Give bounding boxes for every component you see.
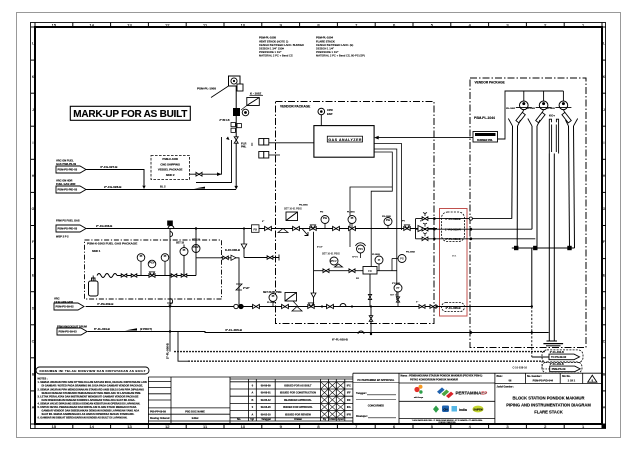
adhi karya logo bbox=[414, 385, 424, 399]
leader from diag box2 bbox=[293, 301, 298, 307]
check valve row1 bbox=[418, 226, 424, 232]
flare stack base flange bbox=[543, 341, 563, 346]
svg-text:1T-1: 1T-1 bbox=[452, 256, 457, 258]
svg-text:2"x3": 2"x3" bbox=[243, 287, 250, 290]
hatch pattern cells bbox=[321, 382, 345, 418]
svg-text:CPR: CPR bbox=[327, 108, 333, 112]
drip leg arrow bbox=[302, 229, 308, 236]
wire CNG box outlet bbox=[190, 137, 222, 174]
svg-text:IFF: IFF bbox=[347, 399, 351, 402]
wire riser down from cross header to LP line bbox=[531, 248, 533, 307]
vendor package boundary flare stack (dash-dot) bbox=[470, 78, 586, 348]
svg-text:PG-1001: PG-1001 bbox=[299, 205, 309, 207]
PC Pertamina EP approval block bbox=[356, 379, 395, 418]
svg-text:DI GAMBAR / NOTED PADA DRAWING: DI GAMBAR / NOTED PADA DRAWING INI JUGA … bbox=[42, 385, 144, 388]
svg-text:L: L bbox=[603, 42, 605, 46]
svg-text:F: F bbox=[603, 240, 605, 244]
svg-text:MATERIAL 2 PC + Bend CS: MATERIAL 2 PC + Bend CS, 80-PS (SP) bbox=[316, 54, 365, 58]
MARK-UP FOR AS BUILT stamp box bbox=[70, 106, 190, 120]
signal boxes pair lower bbox=[259, 152, 269, 159]
svg-text:PSM-PS-PID-044: PSM-PS-PID-044 bbox=[533, 379, 554, 383]
svg-text:CH: CH bbox=[443, 407, 447, 411]
interlock diag box above row1 bbox=[286, 212, 298, 221]
svg-text:PRESSURE 1 1/2": PRESSURE 1 1/2" bbox=[259, 50, 282, 54]
valve FO box on pilot line bbox=[252, 225, 260, 233]
wire drop from FLR junction bbox=[251, 143, 253, 146]
instrument bubble beside block bbox=[242, 109, 249, 116]
svg-text:09-03-20: 09-03-20 bbox=[261, 406, 272, 409]
gate valve bottle line b bbox=[131, 274, 137, 277]
svg-text:FLARE STACK: FLARE STACK bbox=[316, 39, 335, 43]
svg-text:PSM-PS-PID-03: PSM-PS-PID-03 bbox=[58, 227, 78, 231]
svg-text:I: I bbox=[604, 141, 605, 145]
regulator bubble mid bbox=[330, 257, 343, 267]
svg-text:WSP 2 P 2: WSP 2 P 2 bbox=[56, 235, 69, 239]
instrument bubble PG row1 bbox=[321, 216, 329, 229]
ruler ticks top edge bbox=[35, 23, 602, 28]
svg-text:SET 15: SET 15 bbox=[176, 242, 185, 245]
wire lower signal line bbox=[269, 154, 280, 156]
svg-text:KO+: KO+ bbox=[549, 114, 555, 118]
gate valve row2 d bbox=[419, 305, 425, 309]
svg-text:FO: FO bbox=[254, 229, 257, 232]
wire skid outlet to flare header drop bbox=[196, 258, 239, 307]
main flare stack pipes bbox=[549, 154, 554, 342]
svg-text:A: A bbox=[251, 413, 253, 416]
svg-text:FRM PS FUEL GAS: FRM PS FUEL GAS bbox=[56, 219, 80, 223]
valve with actuator on pilot line 2 bbox=[422, 223, 428, 231]
svg-text:12: 12 bbox=[165, 22, 170, 27]
svg-text:Tanggal :: Tanggal : bbox=[356, 392, 367, 395]
jump loops on crossing vertical bbox=[170, 232, 173, 304]
valve on riser bbox=[234, 137, 238, 143]
svg-text:PSM-X-1003 FUEL GAS PACKAGE: PSM-X-1003 FUEL GAS PACKAGE bbox=[87, 242, 137, 246]
junction dots row2 bbox=[321, 305, 353, 307]
svg-text:2"-FG-028-B: 2"-FG-028-B bbox=[104, 185, 122, 189]
wire main flare line from KO drum bbox=[88, 331, 178, 333]
off-page connector to burn pit 2 bbox=[550, 366, 581, 372]
pilot burner 2 bbox=[526, 91, 552, 123]
wire diagonal leader to the left bbox=[211, 86, 229, 98]
molecular seal inner tube bbox=[552, 125, 557, 153]
check valve on drop bbox=[241, 244, 247, 249]
svg-text:PI-1003: PI-1003 bbox=[372, 254, 380, 256]
pressure regulator row1 bbox=[310, 227, 316, 231]
svg-text:SET 20-05 PSIG: SET 20-05 PSIG bbox=[263, 291, 282, 294]
notes text block bbox=[38, 378, 147, 420]
svg-text:VESSEL PACKAGE: VESSEL PACKAGE bbox=[158, 168, 183, 172]
gas analyzer label plate bbox=[327, 136, 362, 142]
svg-text:SET 10-01 PSIG: SET 10-01 PSIG bbox=[284, 208, 302, 211]
riser 3 inlet horn bbox=[566, 119, 578, 127]
svg-text:09-02-10: 09-02-10 bbox=[261, 413, 272, 416]
wire second riser x231.5 to CNG outlet bbox=[196, 140, 232, 183]
svg-text:PSM-PS-09-03: PSM-PS-09-03 bbox=[59, 330, 78, 334]
svg-text:I: I bbox=[33, 141, 34, 145]
wire dashed continuation to flare header and tag 1 bbox=[531, 307, 533, 358]
svg-text:SAIPEM: SAIPEM bbox=[473, 408, 482, 411]
wire burn pit line 2 (dashed existing) bbox=[188, 360, 543, 362]
svg-text:P00-PP-09-09: P00-PP-09-09 bbox=[150, 410, 166, 413]
svg-text:PI: PI bbox=[351, 216, 354, 220]
svg-text:PSTKG KONSORSIUM PONDOK MAK: PSTKG KONSORSIUM PONDOK MAKMUR bbox=[410, 378, 458, 381]
svg-text:B: B bbox=[251, 399, 253, 402]
svg-text:PIPING AND INSTRUMENTATION: PIPING AND INSTRUMENTATION DIAGRAM bbox=[506, 403, 591, 408]
svg-text:(2 PROT): (2 PROT) bbox=[140, 327, 152, 331]
svg-text:SKID 1: SKID 1 bbox=[92, 249, 101, 253]
wire pilot line 1 to riser 1 bbox=[416, 218, 512, 220]
svg-text:PNL: PNL bbox=[241, 145, 247, 149]
svg-text:PT: PT bbox=[396, 286, 400, 290]
svg-text:IFR: IFR bbox=[347, 413, 351, 416]
off-page connector KO drum flare bbox=[57, 325, 87, 329]
svg-text:PG-1003: PG-1003 bbox=[406, 252, 416, 254]
svg-text:RE-ISSUED APPROVAL: RE-ISSUED APPROVAL bbox=[284, 399, 312, 402]
wire pilot line 2 to riser 2 bbox=[416, 228, 533, 230]
fitting at top of crossing vertical bbox=[167, 221, 173, 226]
svg-text:J: J bbox=[603, 108, 605, 112]
crossing loop on flare header at x361 bbox=[358, 331, 364, 334]
svg-text:PONDOK TIMBITPIYA: PONDOK TIMBITPIYA bbox=[438, 421, 456, 424]
wire fuel gas line 2 bbox=[86, 189, 236, 191]
svg-text:2"-FL-006-B: 2"-FL-006-B bbox=[166, 343, 170, 359]
package box fuel gas bottle skid (dash-dot) bbox=[85, 240, 222, 299]
corner block bottom-right bbox=[602, 424, 606, 428]
svg-text:DESIGN BETWEEN LADD. BURNED: DESIGN BETWEEN LADD. BURNED bbox=[259, 43, 304, 47]
svg-text:DESIGN 1 3/4" 150#: DESIGN 1 3/4" 150# bbox=[259, 47, 284, 51]
svg-text:GAS ANALYZER: GAS ANALYZER bbox=[328, 138, 362, 142]
wire signal from burner panel with arrowhead into analyzer bbox=[377, 137, 473, 139]
svg-text:MARK-UP FOR AS BUILT: MARK-UP FOR AS BUILT bbox=[73, 109, 187, 120]
svg-text:VENDOR PACKAGE: VENDOR PACKAGE bbox=[280, 105, 310, 109]
bubble PT right lower bbox=[390, 284, 402, 307]
wire long crossing vertical x170 bbox=[169, 229, 171, 352]
spectacle blind row2 left bbox=[234, 304, 243, 308]
junction dot bbox=[531, 305, 533, 307]
valves on mid header bbox=[323, 269, 329, 273]
gate valve row2 e near edge bbox=[430, 305, 436, 309]
flare riser pair 1 bbox=[512, 126, 518, 248]
junction dot row2 end bbox=[436, 305, 438, 307]
svg-text:PIL-1003: PIL-1003 bbox=[546, 108, 556, 110]
revision table rows bbox=[237, 385, 351, 422]
arrowhead onto fuel gas header bbox=[234, 186, 238, 190]
gate valve bottle line a bbox=[121, 274, 127, 277]
svg-text:SESUAI DENGAN STANDARD PEMASAN: SESUAI DENGAN STANDARD PEMASANGAN YANG B… bbox=[42, 392, 142, 395]
wire pilot line 3 bbox=[416, 238, 536, 240]
valve on drain stub bbox=[267, 256, 273, 260]
wire relief drop to flare header bbox=[370, 307, 372, 335]
wire elbow down to burn pit line 2 bbox=[178, 332, 188, 362]
strainer symbol row1 bbox=[278, 229, 288, 233]
svg-text:PG: PG bbox=[400, 257, 404, 261]
svg-text:SH. No.: SH. No. bbox=[562, 375, 571, 378]
svg-text:ISSUED FOR REVIEW: ISSUED FOR REVIEW bbox=[285, 413, 311, 416]
pilot burner 1 bbox=[506, 91, 532, 123]
svg-text:PSM-PS-PID-03: PSM-PS-PID-03 bbox=[58, 188, 78, 192]
instrument bubbles PCV right pair bbox=[180, 245, 200, 256]
svg-text:Nama : PEMBANGUNAN STASIUN P: Nama : PEMBANGUNAN STASIUN PONDOK MAKMUR… bbox=[401, 375, 483, 378]
svg-text:TO PS-09-02: TO PS-09-02 bbox=[551, 355, 567, 359]
revision cloud around lower tag bbox=[442, 303, 465, 312]
svg-text:09-09-09: 09-09-09 bbox=[261, 385, 272, 388]
svg-text:DESIGN 1 1/4": DESIGN 1 1/4" bbox=[316, 47, 334, 51]
valve on PT drop bbox=[396, 297, 399, 302]
svg-text:J: J bbox=[32, 108, 34, 112]
company name header bbox=[401, 375, 483, 382]
svg-text:PERTAMINAEP: PERTAMINAEP bbox=[456, 391, 488, 396]
svg-text:PSM-PS-09-02: PSM-PS-09-02 bbox=[56, 305, 75, 309]
vendor package boundary center (dash-dot) bbox=[276, 102, 435, 324]
gate valve bottle line c bbox=[171, 274, 177, 277]
wire from signal boxes to analyzer bbox=[269, 142, 314, 144]
svg-text:PG-1002: PG-1002 bbox=[382, 216, 392, 218]
svg-text:SKID 2: SKID 2 bbox=[166, 173, 175, 177]
needle valve bbox=[181, 274, 187, 277]
svg-text:ISSUED FOR APPROVAL: ISSUED FOR APPROVAL bbox=[283, 406, 313, 409]
svg-text:IFF: IFF bbox=[347, 392, 351, 395]
svg-text:PIL-1002: PIL-1002 bbox=[526, 108, 536, 110]
svg-text:PI: PI bbox=[378, 258, 381, 262]
gate valve row1 c bbox=[333, 226, 340, 230]
riser 1 inlet horn bbox=[508, 119, 520, 127]
svg-text:1": 1" bbox=[416, 302, 418, 304]
svg-text:Uraian: Uraian bbox=[294, 418, 302, 421]
wire drop from FO box to row2 bbox=[369, 274, 371, 307]
svg-text:Judul Gambar :: Judul Gambar : bbox=[497, 385, 515, 388]
svg-text:FO: FO bbox=[356, 278, 359, 280]
check valve skid outlet bbox=[231, 255, 236, 260]
svg-text:A: A bbox=[251, 392, 253, 395]
svg-text:DOKUMEN INI TELAH DIREVIEW DAN: DOKUMEN INI TELAH DIREVIEW DAN DINYATAKA… bbox=[40, 369, 146, 373]
wire bottle to regulator line bbox=[93, 276, 196, 282]
molecular seal outer shell bbox=[549, 119, 558, 153]
svg-text:FUEL GAS HDR: FUEL GAS HDR bbox=[56, 182, 76, 186]
revision highlight box (red) bbox=[440, 209, 468, 317]
svg-text:PSM-PL-1005: PSM-PL-1005 bbox=[259, 36, 277, 40]
off-page connector pilot gas bbox=[56, 219, 80, 223]
svg-text:DESIGN BETWEEN LADD. (E): DESIGN BETWEEN LADD. (E) bbox=[316, 43, 353, 47]
svg-text:PI: PI bbox=[164, 254, 167, 258]
instrument bubble row1 e bbox=[384, 218, 392, 229]
crossing loop on top header bbox=[168, 226, 174, 229]
interlock diag box XV bbox=[247, 98, 259, 106]
svg-text:12: 12 bbox=[165, 424, 170, 429]
svg-text:ISSUED FOR AS BUILT: ISSUED FOR AS BUILT bbox=[284, 385, 312, 388]
wire burner panel to pilot header bbox=[498, 91, 564, 139]
svg-text:PSM-PL-1005: PSM-PL-1005 bbox=[197, 87, 216, 91]
instrument bubble row2 a bbox=[269, 294, 277, 307]
wire cross header y248 bbox=[512, 247, 575, 249]
pilot burner 3 bbox=[546, 91, 572, 123]
svg-text:PSM-PS-PID-03: PSM-PS-PID-03 bbox=[58, 168, 78, 172]
svg-text:PSM-C-1000: PSM-C-1000 bbox=[162, 157, 178, 161]
svg-text:L: L bbox=[32, 42, 34, 46]
burner management panel box bbox=[473, 132, 498, 143]
off-page connector fuel gas supply 1 bbox=[56, 159, 77, 166]
svg-text:2": 2" bbox=[330, 261, 332, 263]
signal boxes pair upper bbox=[259, 139, 269, 146]
svg-text:Apvd: Apvd bbox=[337, 418, 344, 421]
svg-text:2": 2" bbox=[262, 221, 264, 223]
FO box on mid header bbox=[363, 267, 377, 275]
svg-text:PT-1001: PT-1001 bbox=[392, 283, 401, 285]
svg-text:PSV: PSV bbox=[358, 247, 363, 251]
svg-text:F: F bbox=[32, 240, 34, 244]
arrowhead into fuel gas header bbox=[142, 186, 145, 189]
bubble PI mid right bbox=[375, 256, 383, 271]
svg-text:14: 14 bbox=[89, 424, 94, 429]
wire LP flare header bbox=[86, 306, 437, 308]
svg-text:SET 10-01 PSIG: SET 10-01 PSIG bbox=[322, 253, 340, 256]
valve on CNG outlet bbox=[196, 172, 202, 176]
wire drain stub with valve bbox=[244, 255, 279, 261]
earthing grid symbol below skid bbox=[167, 299, 173, 305]
svg-text:Rowing Ordered: Rowing Ordered bbox=[150, 417, 170, 420]
svg-text:10: 10 bbox=[241, 424, 246, 429]
pertamina ep logo bbox=[437, 387, 487, 398]
staggered flange blocks on riser bbox=[231, 123, 241, 133]
svg-text:SPVG: SPVG bbox=[352, 257, 358, 259]
svg-text:09-05-12: 09-05-12 bbox=[261, 399, 272, 402]
title strip table grid bbox=[148, 373, 602, 424]
svg-text:PSM-PS-09: PSM-PS-09 bbox=[552, 367, 566, 371]
wire mid header y270.7 bbox=[314, 270, 397, 272]
svg-text:PI: PI bbox=[140, 254, 143, 258]
wire vertical branch x313.5 from pilot row bbox=[313, 232, 315, 271]
revision triangle bbox=[588, 375, 597, 382]
instrument bubble PI 2 bbox=[161, 254, 169, 276]
svg-text:1 Of 1: 1 Of 1 bbox=[568, 379, 576, 383]
drawing number cell bbox=[527, 375, 554, 383]
svg-text:PIL-1001: PIL-1001 bbox=[506, 108, 516, 110]
wire burn pit line 1 (dashed existing) bbox=[174, 351, 545, 353]
needle valve on drop bbox=[311, 293, 316, 298]
off-page connector fuel gas supply 2 bbox=[56, 179, 76, 186]
drawing title text bbox=[506, 396, 591, 415]
valve with actuator on pilot line 3 bbox=[422, 233, 428, 241]
inner border frame bbox=[35, 27, 602, 424]
svg-text:PG: PG bbox=[320, 212, 323, 214]
svg-text:PI: PI bbox=[183, 248, 186, 252]
wire drop from pilot row to bottle skid level bbox=[243, 229, 245, 258]
svg-text:ESP: ESP bbox=[327, 112, 333, 116]
svg-text:VENT STACK (NOTE 2): VENT STACK (NOTE 2) bbox=[259, 39, 288, 43]
flex hose coil bbox=[97, 274, 117, 278]
instrument bubble with stem row1 d bbox=[348, 216, 356, 229]
svg-text:Tgl: Tgl bbox=[250, 418, 254, 421]
consortium logos row bbox=[433, 406, 484, 413]
svg-text:IFC: IFC bbox=[347, 385, 351, 388]
svg-text:G: G bbox=[32, 207, 35, 211]
svg-text:6. GAMBAR INI DIBUAT BERDASAR: 6. GAMBAR INI DIBUAT BERDASARKAN KONDISI… bbox=[38, 417, 128, 420]
valve at package boundary crossing bbox=[369, 316, 372, 322]
junction dot bbox=[243, 227, 245, 229]
svg-text:ISSUED FOR CONSTRUCTION: ISSUED FOR CONSTRUCTION bbox=[280, 392, 316, 395]
svg-text:CNG SHIPPING: CNG SHIPPING bbox=[160, 162, 180, 166]
svg-text:15: 15 bbox=[52, 424, 57, 429]
svg-text:4"-FG-027-B: 4"-FG-027-B bbox=[100, 165, 118, 169]
svg-text:BURNER PNL: BURNER PNL bbox=[477, 139, 493, 142]
svg-text:BL 2: BL 2 bbox=[160, 185, 166, 189]
svg-text:PRESSURE 1 1/2": PRESSURE 1 1/2" bbox=[316, 50, 339, 54]
instrument bubble PI 1 bbox=[137, 254, 145, 276]
interlock diag box above row2 left bbox=[285, 293, 297, 302]
ruler ticks bottom edge bbox=[35, 424, 602, 429]
svg-text:FLARE STACK: FLARE STACK bbox=[534, 410, 563, 415]
svg-text:K-FF-006-B: K-FF-006-B bbox=[225, 248, 240, 252]
svg-text:PG: PG bbox=[386, 218, 390, 222]
svg-text:13: 13 bbox=[127, 424, 132, 429]
gate valve row1 b bbox=[293, 226, 300, 230]
wire fuel gas line 1 with elbow down bbox=[86, 170, 144, 186]
svg-text:No. Gambar :: No. Gambar : bbox=[527, 375, 542, 378]
line data block PSM-PL-1005 bbox=[259, 36, 304, 58]
gate valve row1 a bbox=[265, 226, 272, 230]
wire riser inside skid bbox=[184, 245, 196, 276]
svg-text:PCV: PCV bbox=[149, 261, 155, 265]
svg-text:VENDOR PACKAGE: VENDOR PACKAGE bbox=[475, 81, 505, 85]
svg-text:6"-FL-010-B: 6"-FL-010-B bbox=[332, 338, 348, 342]
label K-100Z underlined bbox=[250, 91, 264, 95]
svg-text:SET 1": SET 1" bbox=[390, 295, 397, 297]
relief bubble with cap bbox=[352, 243, 366, 259]
svg-text:FO: FO bbox=[368, 270, 372, 273]
svg-text:PI-1001: PI-1001 bbox=[347, 212, 355, 214]
ruler numbers top bbox=[52, 22, 585, 27]
svg-text:C-10-038-16: C-10-038-16 bbox=[512, 365, 527, 369]
junction dots x170 bbox=[169, 305, 171, 332]
svg-text:15: 15 bbox=[52, 22, 57, 27]
instrument labels for density bbox=[262, 205, 422, 305]
spectacle blind on drop bbox=[236, 284, 242, 290]
gas analyzer panel box bbox=[314, 126, 374, 158]
wire flare header to stack base bbox=[178, 332, 549, 333]
line data block PSM-PL-1004 bbox=[316, 36, 365, 58]
off-page connector LP flare header bbox=[54, 297, 73, 304]
gas bottle cylinder bbox=[89, 278, 99, 296]
svg-text:NOTES :: NOTES : bbox=[38, 378, 48, 381]
control valve row2 bbox=[308, 305, 314, 309]
flare riser pair 3 bbox=[569, 126, 575, 248]
svg-text:09-08-01: 09-08-01 bbox=[261, 392, 272, 395]
junction dots at package boundary bbox=[433, 217, 436, 240]
leader from XV box to block valve bbox=[241, 106, 247, 111]
svg-text:14: 14 bbox=[89, 22, 94, 27]
svg-text:1": 1" bbox=[420, 221, 422, 223]
revision cloud around right tag 2 bbox=[542, 362, 582, 373]
svg-text:MATERIAL 2 PC + Bend CS: MATERIAL 2 PC + Bend CS bbox=[259, 54, 293, 58]
pressure regulator with diaphragm bbox=[148, 260, 156, 277]
revision cloud around line tags bbox=[442, 212, 465, 242]
wire vertical riser x236 bbox=[235, 86, 237, 186]
svg-text:Disetujui :: Disetujui : bbox=[356, 415, 368, 418]
svg-text:CONCURNED: CONCURNED bbox=[368, 405, 384, 408]
svg-text:BLOCK STATION PONDOK MAKMUR: BLOCK STATION PONDOK MAKMUR bbox=[513, 396, 585, 401]
wire manifold ladder to pilot lines bbox=[415, 219, 417, 239]
gate valve row2 b bbox=[282, 304, 289, 308]
gate valve row1 d bbox=[349, 226, 356, 230]
svg-text:Blok :: Blok : bbox=[497, 375, 504, 378]
package box PSM-C-1000 CNG shipping (dashed) bbox=[151, 156, 190, 180]
svg-text:PC PERTAMINA EP APPROVAL: PC PERTAMINA EP APPROVAL bbox=[357, 379, 395, 382]
gate valve skid outlet a bbox=[223, 256, 229, 259]
ruler letters left/right bbox=[32, 42, 606, 410]
instrument box FO with bubble at top bbox=[229, 76, 244, 91]
svg-text:6"-FL-004-B: 6"-FL-004-B bbox=[94, 327, 110, 331]
ruler ticks right edge bbox=[602, 27, 606, 424]
svg-text:PSM-PL-1004: PSM-PL-1004 bbox=[316, 36, 334, 40]
